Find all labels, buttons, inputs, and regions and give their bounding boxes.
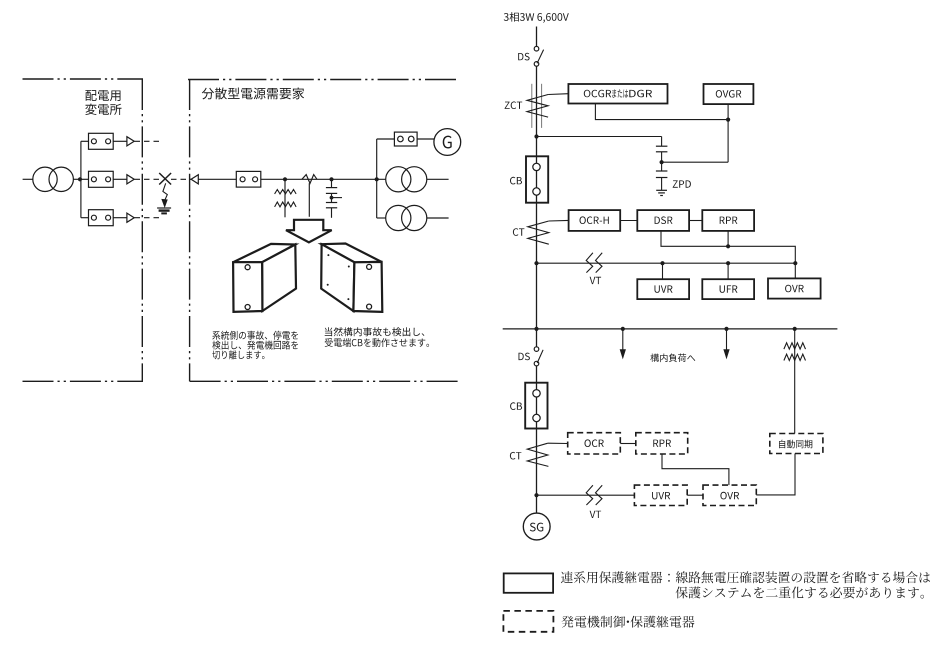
relay UFR box [702, 279, 754, 299]
node: VT line dot at main [534, 261, 538, 265]
label: VT (lower) [590, 511, 602, 518]
wire: feeder branch vertical [80, 141, 82, 217]
label: DS (upper) [518, 53, 529, 61]
wire: OVGR down to ZPD tap [662, 104, 729, 162]
wire: generator branch top [377, 138, 395, 140]
wire: DSR to RPR [689, 220, 702, 222]
legend: solid box (interconnection protection relay) [504, 573, 553, 592]
bus line (customer bus) [503, 328, 838, 330]
ground symbol (fault) [157, 208, 171, 213]
ZPD capacitive divider [656, 137, 668, 191]
relay UVR box (upper) [637, 279, 689, 299]
wire: lower transformer branch [377, 217, 386, 219]
CT current transformer (lower, zigzag) [527, 443, 548, 466]
relay OCR-H box [569, 210, 621, 231]
transformer T3 (lower customer) [386, 205, 427, 230]
wire: DSR/RPR output net [661, 231, 795, 263]
wire: middle feeder to arrow [113, 178, 127, 180]
block arrow down (relay action) [286, 220, 332, 243]
boundary box: distribution substation (dash-dot border) [23, 79, 144, 381]
wire: OCGR output to OVGR net [595, 104, 728, 120]
relay OCR dashed box [568, 433, 621, 454]
label: CB (lower) [510, 402, 522, 410]
wire: CT to OCR-H relay [549, 219, 569, 222]
VT voltage transformer (upper, double zigzag) [586, 253, 602, 273]
wire: bottom feeder stub [81, 217, 89, 219]
feeder breaker box (bottom feeder) [89, 210, 114, 226]
node: RPR net dot [726, 244, 730, 248]
node: VT line dot (lower) [534, 493, 538, 497]
node: bus dot load 2 [724, 327, 728, 331]
wire: ZCT to OCGR relay [548, 93, 568, 96]
wire: main line CB to transformer branch [261, 178, 386, 180]
node: OVGR net dot [726, 118, 730, 122]
generator breaker box [394, 132, 417, 146]
wire: DS to ZCT section [536, 66, 538, 136]
node: UFR tap dot [726, 261, 730, 265]
relay OVGR box [704, 84, 754, 104]
wire: T3 output [427, 217, 449, 219]
wire: VT measuring line (upper) [537, 262, 796, 264]
VT voltage transformer (lower, double zigzag) [586, 485, 602, 505]
feeder breaker box (middle feeder) [89, 171, 114, 187]
caption: right relay box [325, 327, 429, 347]
label: 構内負荷へ [650, 354, 695, 363]
label: ZPD [673, 180, 691, 187]
label: CB (upper) [510, 177, 522, 185]
wire: RPR drop [727, 231, 729, 246]
wire: CB to SG generator [536, 383, 538, 514]
label: VT (upper) [590, 277, 602, 284]
node: generator branch dot [375, 177, 379, 181]
customer receiving breaker CB box [236, 171, 260, 187]
wire: stub below fuse [308, 183, 310, 217]
wire: UVR to OVR (lower) [687, 494, 703, 496]
wire: CB to CT to bus [536, 137, 538, 329]
relay RPR dashed box (lower) [636, 433, 688, 454]
arrow: middle feeder direction (open triangle) [127, 175, 134, 184]
label: CT (lower) [510, 452, 522, 460]
wire: OCR-H to DSR [620, 220, 637, 222]
feeder breaker box (top feeder) [89, 133, 114, 149]
arrow: into customer (open triangle left) [191, 175, 198, 184]
capacitive divider (ZPD) branch [326, 179, 342, 218]
relay unit 3D box (right) [321, 244, 382, 312]
disconnector DS (upper) [534, 46, 543, 66]
wire: auto-sync to OVR [756, 454, 795, 495]
label: 分散型電源需要家 [202, 88, 304, 100]
wire: UVR tap [662, 263, 664, 279]
load feeder arrow 1 [620, 329, 625, 358]
node: bus dot load 1 [621, 327, 625, 331]
wire: RPR to OVR net (lower) [662, 454, 729, 485]
wire: UFR tap [727, 263, 729, 279]
node: arrester branch dot [283, 177, 287, 181]
label: CT (upper) [513, 228, 525, 236]
wire: customer main line [198, 178, 236, 180]
wire: CT to OCR relay [548, 442, 568, 444]
label: 配電用変電所 [85, 90, 121, 115]
disconnector DS (lower) [534, 329, 543, 366]
surge arrester branch (double zigzag) [275, 179, 297, 217]
inline fuse zigzag on main line [302, 175, 317, 184]
wire: OVR tap [794, 263, 796, 278]
wire: bottom feeder dashed stub [135, 217, 163, 219]
fault lightning arrow to ground [162, 183, 167, 207]
node: capacitor branch dot [329, 177, 333, 181]
label: ZCT [505, 101, 523, 109]
arrow: top feeder direction (open triangle) [127, 137, 134, 146]
arrester branch to auto-sync (double zigzag) [784, 329, 806, 434]
relay 自動同期 dashed box [770, 434, 823, 454]
relay DSR box [637, 210, 689, 231]
wire: T2 output [427, 178, 449, 180]
node: OVR tap dot [793, 261, 797, 265]
legend: dashed box (generator control/protection relay) [503, 611, 553, 632]
wire: middle feeder dashed line to customer [135, 178, 192, 180]
node: main line dot at ZPD branch [534, 134, 538, 138]
relay OVR box (upper) [768, 278, 821, 298]
wire: VT measuring line (lower) [537, 494, 635, 496]
ground symbol (ZPD) [656, 190, 667, 195]
wire: breaker to generator [417, 138, 435, 140]
wire: top feeder stub [81, 140, 89, 142]
relay unit 3D box (left) [233, 244, 296, 312]
node: bus dot at main line [534, 327, 538, 331]
wire: generator branch vertical [376, 139, 378, 218]
generator SG circle [523, 513, 550, 540]
circuit breaker CB box (lower) [525, 383, 547, 429]
wire: OCR to RPR [620, 443, 636, 445]
relay OVR dashed box (lower) [703, 485, 756, 505]
wire: DS to CB (lower) [536, 366, 538, 383]
load feeder arrow 2 [724, 329, 729, 358]
node: bus dot arrester branch [793, 327, 797, 331]
node: UVR tap dot [660, 261, 664, 265]
node: feeder junction dot [78, 177, 82, 181]
label: DS (lower) [519, 353, 530, 361]
legend text line 1 [561, 571, 930, 583]
transformer T1 (substation, two circles) [33, 167, 74, 191]
transformer T2 (upper customer) [386, 167, 427, 192]
relay UVR dashed box (lower) [634, 485, 687, 505]
legend text line 3 [562, 616, 695, 628]
generator G circle [434, 129, 461, 156]
arrow: bottom feeder direction (open triangle) [127, 213, 134, 222]
wire: bottom feeder to arrow [113, 217, 127, 219]
ZCT zero-phase CT [527, 84, 548, 128]
wire: transformer to feeder node [73, 178, 89, 180]
relay OCGRまたはDGR box [568, 84, 667, 104]
label: 3相3W 6,600V [504, 12, 569, 23]
legend text line 2 [676, 587, 924, 599]
fault symbol X on feeder [159, 173, 171, 185]
wire: incoming line [536, 27, 538, 47]
relay RPR box (upper) [702, 210, 754, 231]
CT current transformer (upper, zigzag) [528, 221, 549, 244]
wire: lead into substation transformer [23, 178, 34, 180]
caption: left relay box [212, 331, 298, 360]
wire: top feeder to arrow [113, 140, 127, 142]
circuit breaker CB box (upper) [526, 156, 548, 202]
wire: main line to ZPD [537, 136, 662, 138]
wire: top feeder dashed stub [135, 140, 163, 142]
boundary box: distributed-generation customer (dash-dot border) [188, 79, 460, 381]
